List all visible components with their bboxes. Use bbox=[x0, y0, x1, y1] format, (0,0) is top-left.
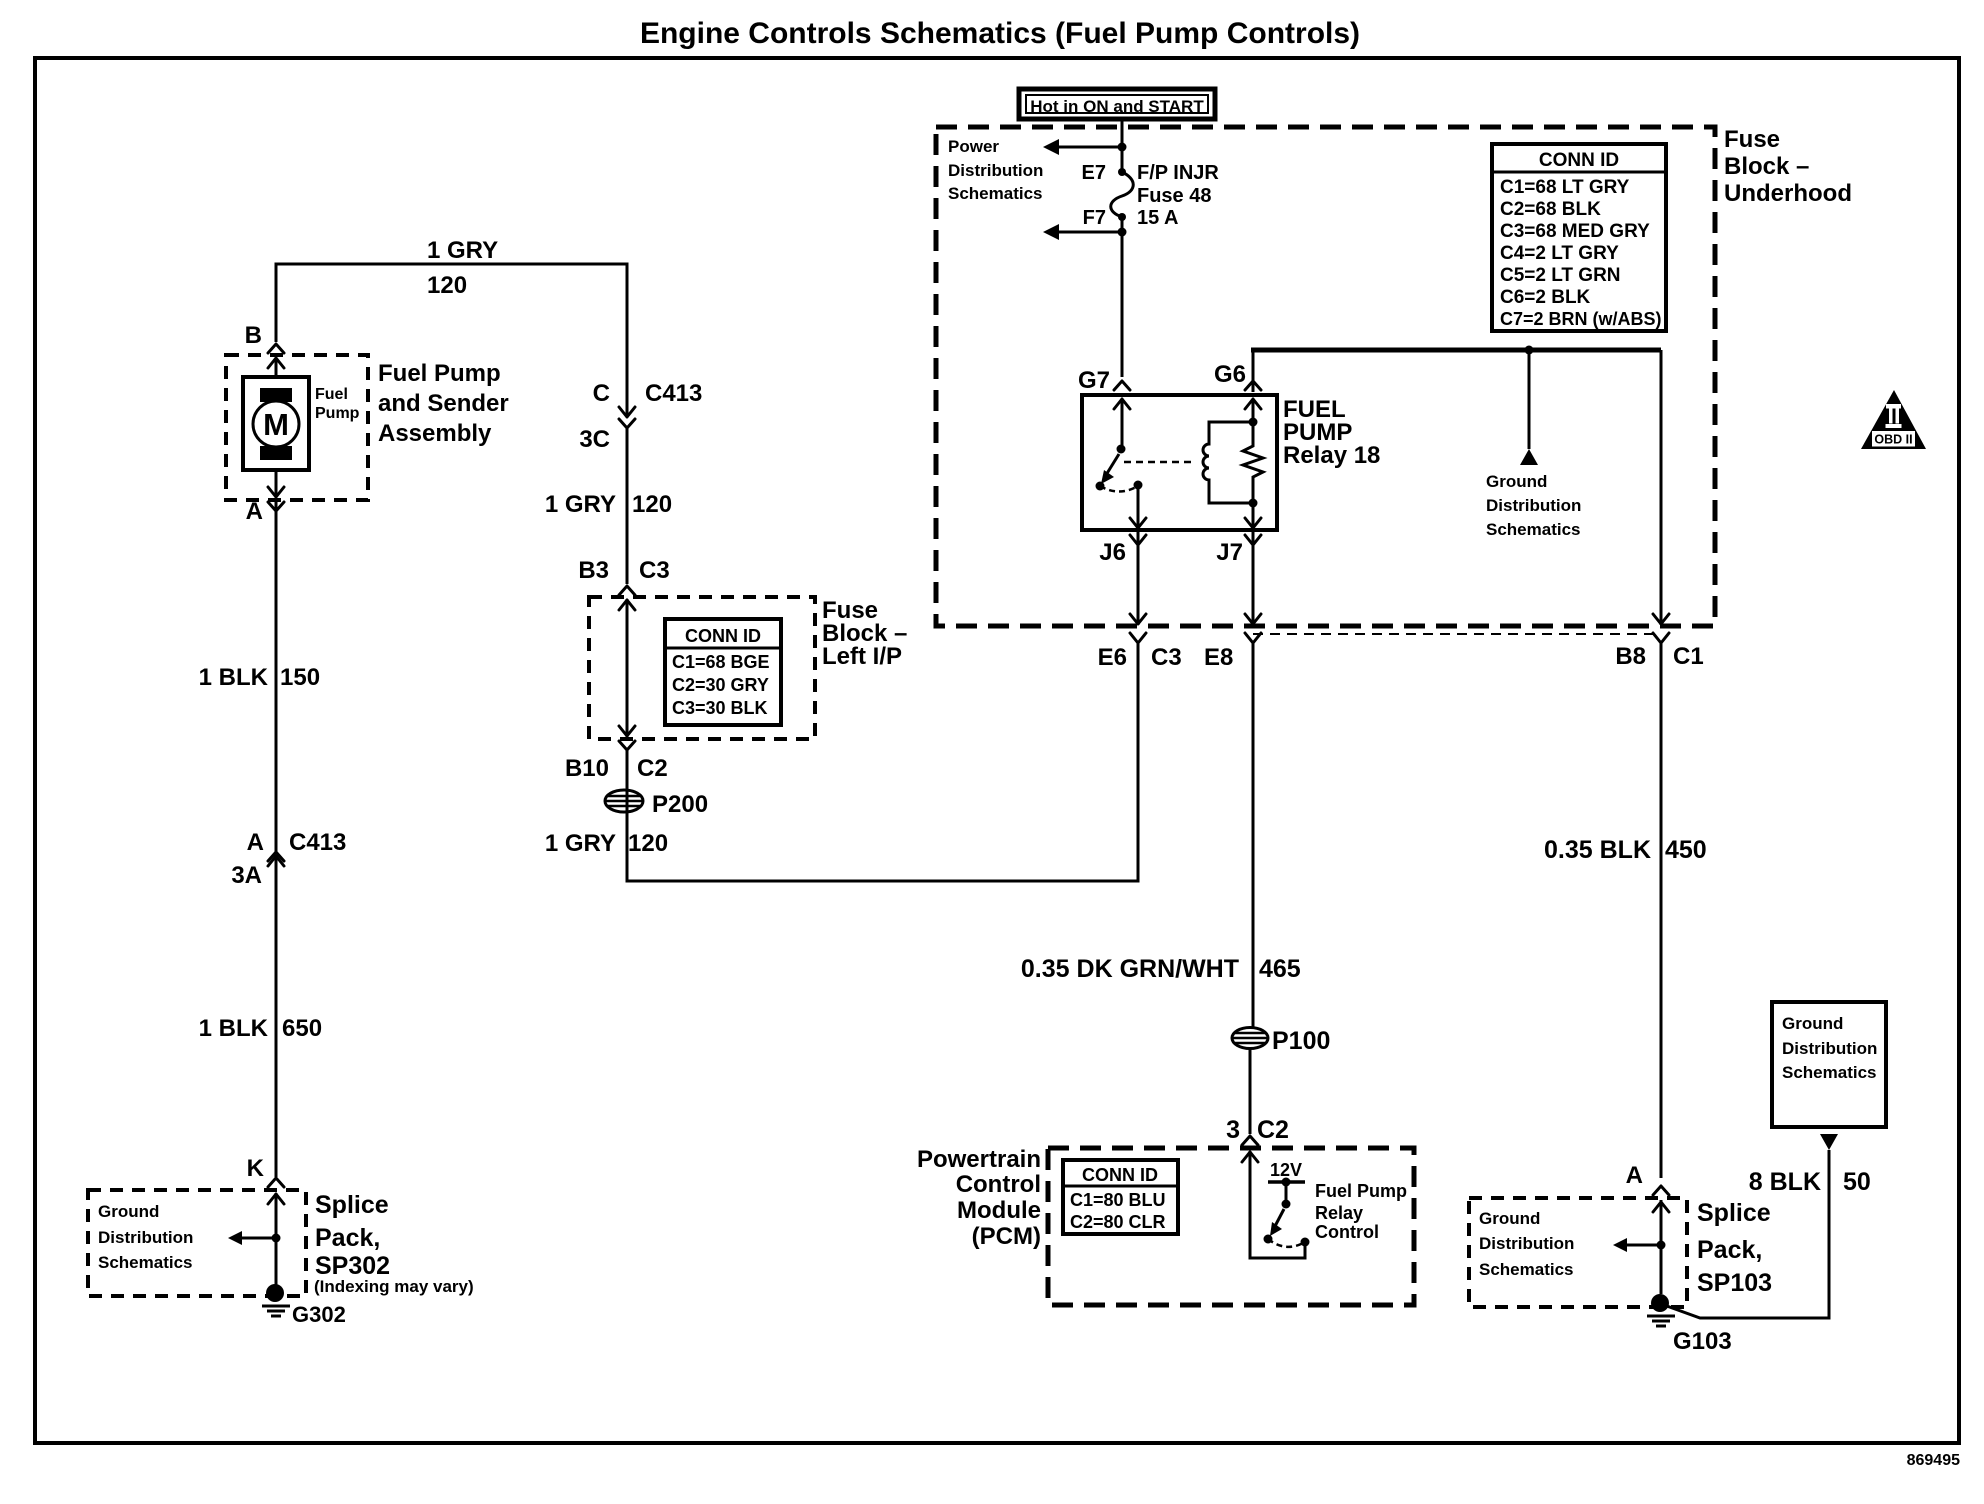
svg-text:C2=68 BLK: C2=68 BLK bbox=[1500, 199, 1601, 220]
svg-text:Engine Controls Schematics (Fu: Engine Controls Schematics (Fuel Pump Co… bbox=[640, 17, 1360, 50]
svg-text:12V: 12V bbox=[1270, 1160, 1302, 1180]
svg-text:Relay 18: Relay 18 bbox=[1283, 442, 1380, 469]
svg-text:Relay: Relay bbox=[1315, 1203, 1363, 1223]
svg-text:Splice: Splice bbox=[315, 1191, 389, 1219]
svg-text:Fuse: Fuse bbox=[1724, 126, 1780, 153]
svg-text:M: M bbox=[263, 407, 289, 442]
svg-text:B: B bbox=[245, 322, 262, 349]
svg-text:CONN ID: CONN ID bbox=[685, 626, 761, 646]
svg-text:C1: C1 bbox=[1673, 643, 1704, 670]
svg-text:Ground: Ground bbox=[1479, 1209, 1540, 1228]
svg-text:3A: 3A bbox=[231, 862, 262, 889]
svg-text:K: K bbox=[247, 1155, 265, 1182]
svg-text:Left I/P: Left I/P bbox=[822, 643, 902, 670]
svg-text:G6: G6 bbox=[1214, 361, 1246, 388]
svg-text:120: 120 bbox=[632, 491, 672, 518]
svg-text:C1=68 LT GRY: C1=68 LT GRY bbox=[1500, 177, 1630, 198]
svg-text:Pack,: Pack, bbox=[1697, 1236, 1762, 1264]
svg-text:8 BLK: 8 BLK bbox=[1749, 1168, 1821, 1196]
svg-text:C2=30 GRY: C2=30 GRY bbox=[672, 675, 769, 695]
svg-text:B10: B10 bbox=[565, 755, 609, 782]
svg-text:G7: G7 bbox=[1078, 367, 1110, 394]
svg-text:Fuel: Fuel bbox=[315, 386, 348, 403]
svg-text:450: 450 bbox=[1665, 836, 1707, 864]
svg-text:Ground: Ground bbox=[1486, 472, 1547, 491]
svg-text:A: A bbox=[1626, 1162, 1643, 1189]
svg-text:C3=68 MED GRY: C3=68 MED GRY bbox=[1500, 221, 1650, 242]
svg-text:1 BLK: 1 BLK bbox=[199, 664, 269, 691]
svg-text:C413: C413 bbox=[289, 829, 346, 856]
svg-text:B8: B8 bbox=[1615, 643, 1646, 670]
svg-text:0.35 BLK: 0.35 BLK bbox=[1544, 836, 1651, 864]
svg-text:C7=2 BRN (w/ABS): C7=2 BRN (w/ABS) bbox=[1500, 309, 1662, 329]
svg-text:OBD II: OBD II bbox=[1874, 433, 1912, 447]
svg-text:C: C bbox=[593, 380, 610, 407]
svg-text:150: 150 bbox=[280, 664, 320, 691]
svg-text:465: 465 bbox=[1259, 955, 1301, 983]
svg-text:120: 120 bbox=[628, 830, 668, 857]
svg-text:Distribution: Distribution bbox=[948, 161, 1043, 180]
svg-text:15 A: 15 A bbox=[1137, 207, 1179, 229]
svg-text:C6=2 BLK: C6=2 BLK bbox=[1500, 287, 1591, 308]
svg-text:0.35 DK GRN/WHT: 0.35 DK GRN/WHT bbox=[1021, 955, 1239, 983]
svg-text:Fuel Pump: Fuel Pump bbox=[378, 360, 501, 387]
svg-text:F7: F7 bbox=[1083, 207, 1106, 229]
svg-text:1 GRY: 1 GRY bbox=[545, 491, 616, 518]
svg-text:B3: B3 bbox=[578, 557, 609, 584]
svg-text:A: A bbox=[247, 829, 264, 856]
svg-text:1 GRY: 1 GRY bbox=[427, 237, 498, 264]
svg-text:C5=2 LT GRN: C5=2 LT GRN bbox=[1500, 265, 1621, 286]
svg-text:Distribution: Distribution bbox=[98, 1228, 193, 1247]
svg-text:(PCM): (PCM) bbox=[972, 1223, 1041, 1250]
svg-text:Fuse 48: Fuse 48 bbox=[1137, 185, 1211, 207]
svg-text:G302: G302 bbox=[292, 1302, 346, 1327]
svg-text:Control: Control bbox=[1315, 1222, 1379, 1242]
svg-text:50: 50 bbox=[1843, 1168, 1871, 1196]
svg-text:E8: E8 bbox=[1204, 644, 1233, 671]
svg-text:F/P INJR: F/P INJR bbox=[1137, 162, 1219, 184]
svg-text:Schematics: Schematics bbox=[1782, 1063, 1877, 1082]
svg-text:J6: J6 bbox=[1099, 539, 1126, 566]
svg-text:E7: E7 bbox=[1082, 162, 1106, 184]
svg-text:CONN ID: CONN ID bbox=[1082, 1165, 1158, 1185]
svg-text:E6: E6 bbox=[1098, 644, 1127, 671]
svg-text:C4=2 LT GRY: C4=2 LT GRY bbox=[1500, 243, 1619, 264]
svg-text:CONN ID: CONN ID bbox=[1539, 150, 1619, 171]
svg-text:Schematics: Schematics bbox=[1479, 1260, 1574, 1279]
svg-text:C1=68 BGE: C1=68 BGE bbox=[672, 652, 770, 672]
svg-text:1 GRY: 1 GRY bbox=[545, 830, 616, 857]
svg-text:C413: C413 bbox=[645, 380, 702, 407]
svg-text:120: 120 bbox=[427, 272, 467, 299]
svg-text:A: A bbox=[246, 498, 263, 525]
svg-text:Control: Control bbox=[956, 1171, 1041, 1198]
svg-text:(Indexing may vary): (Indexing may vary) bbox=[314, 1277, 474, 1296]
svg-text:Splice: Splice bbox=[1697, 1199, 1771, 1227]
svg-text:Module: Module bbox=[957, 1197, 1041, 1224]
svg-text:C3=30 BLK: C3=30 BLK bbox=[672, 698, 768, 718]
svg-text:Hot in ON and START: Hot in ON and START bbox=[1030, 97, 1204, 116]
svg-text:Distribution: Distribution bbox=[1486, 496, 1581, 515]
svg-text:Assembly: Assembly bbox=[378, 420, 492, 447]
svg-text:Schematics: Schematics bbox=[1486, 520, 1581, 539]
svg-text:Fuel Pump: Fuel Pump bbox=[1315, 1181, 1407, 1201]
svg-text:3: 3 bbox=[1226, 1116, 1240, 1144]
svg-text:Ground: Ground bbox=[1782, 1014, 1843, 1033]
svg-text:C2: C2 bbox=[637, 755, 668, 782]
svg-text:Block –: Block – bbox=[1724, 153, 1809, 180]
svg-text:G103: G103 bbox=[1673, 1328, 1732, 1355]
svg-text:869495: 869495 bbox=[1907, 1452, 1960, 1469]
svg-text:Schematics: Schematics bbox=[98, 1253, 193, 1272]
svg-text:Ground: Ground bbox=[98, 1202, 159, 1221]
svg-text:C2: C2 bbox=[1257, 1116, 1289, 1144]
svg-text:Power: Power bbox=[948, 137, 999, 156]
svg-text:Underhood: Underhood bbox=[1724, 180, 1852, 207]
svg-text:J7: J7 bbox=[1216, 539, 1243, 566]
svg-text:Distribution: Distribution bbox=[1782, 1039, 1877, 1058]
svg-text:SP302: SP302 bbox=[315, 1252, 390, 1280]
svg-text:C1=80 BLU: C1=80 BLU bbox=[1070, 1190, 1166, 1210]
svg-text:Pump: Pump bbox=[315, 405, 360, 422]
svg-text:650: 650 bbox=[282, 1015, 322, 1042]
svg-text:SP103: SP103 bbox=[1697, 1269, 1772, 1297]
svg-text:P100: P100 bbox=[1272, 1027, 1330, 1055]
svg-text:3C: 3C bbox=[579, 426, 610, 453]
svg-text:C3: C3 bbox=[1151, 644, 1182, 671]
svg-text:Pack,: Pack, bbox=[315, 1224, 380, 1252]
svg-text:Powertrain: Powertrain bbox=[917, 1146, 1041, 1173]
svg-text:Distribution: Distribution bbox=[1479, 1234, 1574, 1253]
svg-text:Schematics: Schematics bbox=[948, 184, 1043, 203]
svg-text:C2=80 CLR: C2=80 CLR bbox=[1070, 1212, 1166, 1232]
svg-text:P200: P200 bbox=[652, 791, 708, 818]
svg-text:and Sender: and Sender bbox=[378, 390, 509, 417]
svg-text:C3: C3 bbox=[639, 557, 670, 584]
svg-text:1 BLK: 1 BLK bbox=[199, 1015, 269, 1042]
